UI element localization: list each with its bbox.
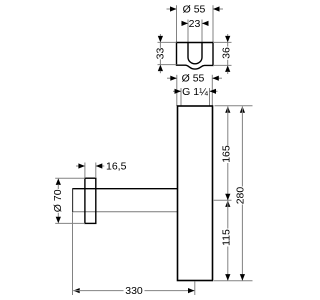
- dimension 33: [155, 34, 167, 73]
- wall bracket outline: [177, 43, 214, 70]
- svg-text:115: 115: [221, 229, 233, 246]
- trap tube body: [178, 106, 213, 281]
- pipe horizontal bottom edge: [73, 211, 178, 213]
- wire: extension line right for dim 330: [194, 282, 196, 296]
- svg-text:165: 165: [221, 145, 233, 163]
- wire: extension line top for dim O70: [55, 177, 85, 179]
- wire: extension line right of dim O55 top: [212, 5, 214, 42]
- wire: extension line bottom right: [214, 280, 253, 282]
- wire: extension line right G1-1/4: [209, 88, 211, 106]
- wire: extension line left of dim O55 top: [176, 5, 178, 42]
- pipe left end edge: [72, 188, 74, 212]
- dimension 36: [221, 34, 233, 74]
- svg-text:280: 280: [235, 187, 247, 205]
- dimension O70: [52, 178, 64, 223]
- dimension 165: [221, 106, 233, 200]
- dimension 23: [181, 18, 208, 30]
- svg-text:Ø 70: Ø 70: [52, 189, 64, 212]
- wire: extension line left for dim 16,5: [84, 163, 86, 179]
- svg-text:33: 33: [155, 48, 167, 60]
- dimension O55 mid: [167, 73, 222, 85]
- pipe horizontal top edge: [73, 188, 178, 190]
- wire: extension line left G1-1/4: [180, 88, 182, 106]
- dimension O55 top: [167, 4, 224, 16]
- dimension 115: [221, 200, 233, 280]
- wire: extension line left of dim 23: [187, 20, 189, 43]
- wire: extension line right for dim 16,5: [95, 163, 97, 179]
- svg-text:23: 23: [189, 18, 201, 30]
- wire: extension line left O55 mid: [176, 75, 178, 106]
- wire: extension line top right: [215, 105, 253, 107]
- dimension G 1 1/4: [173, 86, 218, 98]
- dimension 330: [73, 285, 194, 297]
- wire: extension line bottom for dim 36: [213, 64, 232, 66]
- wire: extension line right of dim 23: [201, 20, 203, 43]
- svg-text:16,5: 16,5: [106, 161, 127, 173]
- dimension 16,5: [76, 161, 127, 173]
- svg-text:Ø 55: Ø 55: [183, 4, 206, 16]
- wire: extension line top for dim 36: [213, 41, 232, 43]
- wall flange: [85, 178, 96, 223]
- svg-text:Ø 55: Ø 55: [182, 73, 205, 85]
- wire: extension line top for dim 33: [158, 41, 177, 43]
- svg-text:330: 330: [125, 285, 143, 297]
- svg-text:36: 36: [221, 47, 233, 59]
- wall bracket U cutout: [188, 43, 202, 64]
- wire: extension line mid right: [214, 199, 232, 201]
- wire: extension line right O55 mid: [211, 75, 213, 106]
- dimension 280: [235, 106, 247, 280]
- wire: extension line left for dim 330: [72, 213, 74, 296]
- wire: extension line bottom for dim 33: [158, 64, 177, 66]
- wire: extension line bottom for dim O70: [55, 222, 85, 224]
- svg-text:G 1¼: G 1¼: [182, 86, 208, 98]
